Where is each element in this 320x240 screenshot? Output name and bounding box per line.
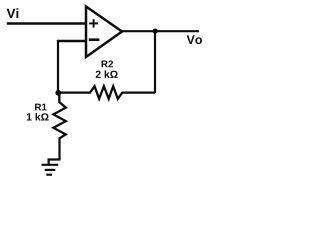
- R1 ref label: [35, 104, 47, 111]
- resistor R1: [53, 93, 65, 138]
- R2 value label 2 kOhm: [96, 70, 118, 78]
- R1 value label 1 kOhm: [27, 113, 49, 121]
- wire inverting input: [57, 40, 87, 42]
- junction inverting node: [55, 90, 61, 96]
- junction output node: [153, 29, 158, 34]
- node Vi label: [7, 8, 19, 18]
- wire Vi input to op-amp + input: [7, 22, 87, 24]
- op-amp + input symbol: [89, 19, 98, 27]
- op-amp - input symbol: [89, 38, 100, 41]
- node Vo label: [187, 35, 202, 44]
- R2 ref label: [102, 60, 113, 67]
- ground: [42, 165, 59, 175]
- wire feedback right vertical: [154, 31, 156, 93]
- wire feedback left vertical: [57, 40, 59, 93]
- resistor R2: [58, 86, 155, 99]
- op-amp: [86, 7, 122, 58]
- wire R1 bottom lead with jog: [49, 138, 60, 165]
- wire output: [121, 30, 199, 32]
